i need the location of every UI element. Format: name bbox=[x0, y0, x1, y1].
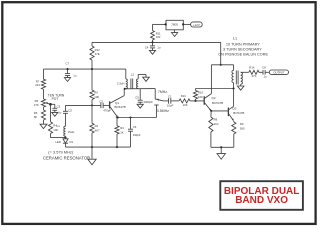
pin dot 7805 output bbox=[182, 23, 184, 25]
svg-text:1u: 1u bbox=[73, 74, 77, 78]
svg-text:1u: 1u bbox=[58, 110, 62, 114]
wire R6 to node bbox=[91, 100, 93, 106]
svg-text:100: 100 bbox=[156, 35, 161, 39]
inductor L1 secondary bbox=[241, 72, 243, 84]
svg-text:C1: C1 bbox=[168, 94, 172, 98]
node bottom R3 bbox=[116, 146, 118, 148]
svg-text:470pF: 470pF bbox=[103, 108, 111, 112]
transformer core bbox=[131, 79, 133, 89]
wire R6 top bbox=[91, 69, 93, 90]
svg-text:R2: R2 bbox=[95, 124, 99, 128]
wire R10 top bbox=[195, 89, 197, 91]
wire C2 to Q1 bbox=[103, 104, 110, 106]
resistor R3 bbox=[115, 118, 124, 135]
label L2 bbox=[131, 73, 135, 77]
resistor R14 bbox=[249, 65, 259, 78]
svg-text:C5: C5 bbox=[135, 96, 139, 100]
node emitter ground bbox=[220, 146, 222, 148]
svg-text:C6: C6 bbox=[133, 125, 137, 129]
svg-text:C5: C5 bbox=[68, 109, 72, 113]
wire L3 top to ground bbox=[138, 74, 146, 79]
svg-text:BC547B: BC547B bbox=[212, 101, 223, 105]
wire R14 to C8 bbox=[259, 71, 263, 73]
wire rail corner bbox=[220, 42, 222, 64]
node bottom ground bbox=[91, 146, 93, 148]
svg-text:LED: LED bbox=[55, 140, 60, 144]
svg-text:C8: C8 bbox=[262, 65, 266, 69]
wire wiper to C3 bbox=[51, 104, 55, 108]
wire R3 bottom bbox=[116, 134, 118, 147]
resistor R13 bbox=[179, 94, 190, 107]
wire R8 bottom bbox=[210, 132, 212, 147]
wire switch upper bbox=[155, 89, 157, 100]
resistor R9 bbox=[232, 121, 245, 134]
ground C5 bbox=[137, 102, 143, 108]
wire C8 to output bbox=[265, 71, 269, 73]
svg-text:C4: C4 bbox=[145, 46, 149, 50]
svg-text:BAND VXO: BAND VXO bbox=[235, 195, 288, 206]
ground L3 bbox=[143, 77, 150, 81]
ground 7805 bbox=[172, 30, 178, 37]
wire switch to C1 bbox=[163, 100, 168, 102]
wire collector bus bbox=[196, 88, 234, 90]
wire column top bbox=[65, 105, 67, 111]
svg-text:7MHz: 7MHz bbox=[158, 90, 167, 94]
wire Q2 emitter bus bbox=[211, 110, 228, 112]
wire LED bottom bbox=[65, 143, 67, 147]
label 3.5MHz bbox=[157, 109, 169, 113]
svg-text:3 TURN SECONDARY: 3 TURN SECONDARY bbox=[223, 47, 262, 51]
svg-text:L1: L1 bbox=[57, 124, 61, 128]
capacitor C6 bbox=[128, 118, 141, 138]
wire R4 bottom bbox=[51, 134, 66, 138]
ground left chain bbox=[40, 124, 47, 128]
svg-text:BC547B: BC547B bbox=[233, 111, 244, 115]
wire 7805 input bbox=[153, 24, 166, 30]
wire base bus bbox=[66, 104, 101, 106]
svg-text:R8: R8 bbox=[214, 117, 218, 121]
wire secondary to R14 bbox=[241, 71, 249, 73]
capacitor C2 bbox=[99, 99, 111, 112]
ground C4 bbox=[149, 48, 155, 54]
resistor R12 bbox=[90, 42, 100, 60]
inductor L1 primary bbox=[232, 70, 234, 82]
wire bottom bus bbox=[66, 146, 131, 148]
transformer L1 core bbox=[236, 71, 238, 85]
svg-text:R14: R14 bbox=[249, 65, 255, 69]
resistor R6a bbox=[34, 110, 46, 120]
wire R9 bottom bbox=[233, 134, 235, 147]
resistor R4 bbox=[48, 122, 58, 134]
node lower rail R12 bbox=[91, 68, 93, 70]
diode D1 LED bbox=[55, 136, 73, 144]
pot wiper bbox=[46, 102, 51, 104]
svg-text:L2: L2 bbox=[131, 73, 135, 77]
transistor Q2 bbox=[204, 94, 223, 111]
resistor R7 bbox=[35, 79, 45, 89]
wire R7 to pot bbox=[43, 89, 45, 99]
node T1 primary bottom bbox=[124, 88, 126, 90]
svg-text:5K: 5K bbox=[34, 115, 38, 119]
wire left chain top bbox=[43, 69, 45, 79]
wire Q3 collector bbox=[233, 89, 235, 107]
switch S1 lever bbox=[157, 99, 164, 101]
svg-text:R13: R13 bbox=[181, 94, 187, 98]
node OUTPUT bbox=[269, 70, 288, 75]
capacitor C3 bbox=[52, 105, 61, 115]
pin dot 7805 input bbox=[165, 23, 167, 25]
svg-text:47E: 47E bbox=[95, 52, 100, 56]
svg-text:POT: POT bbox=[52, 97, 59, 101]
switch lower contact bbox=[154, 105, 159, 118]
svg-text:7805: 7805 bbox=[171, 23, 178, 27]
wire L1 primary bottom bbox=[233, 83, 235, 89]
wire R12 bottom bbox=[91, 60, 93, 69]
node emitter C6 bbox=[129, 116, 131, 118]
svg-text:3.5MHz: 3.5MHz bbox=[157, 109, 169, 113]
title text bbox=[224, 186, 300, 206]
ground L1 bbox=[237, 86, 244, 90]
resistor R2 bbox=[90, 123, 100, 133]
wire rail corner down bbox=[125, 69, 127, 79]
svg-text:10 TURN PRIMARY: 10 TURN PRIMARY bbox=[226, 43, 261, 47]
wire left chain bottom bbox=[43, 120, 45, 124]
ground C3 bbox=[52, 110, 58, 116]
capacitor C8 bbox=[262, 65, 267, 78]
node LED top bbox=[64, 137, 66, 139]
label 7MHz bbox=[158, 90, 167, 94]
svg-text:.1u: .1u bbox=[157, 46, 161, 50]
svg-text:BC547B: BC547B bbox=[115, 105, 126, 109]
svg-text:3300pF: 3300pF bbox=[143, 100, 153, 104]
capacitor C4 bbox=[145, 42, 161, 49]
capacitor C7 bbox=[65, 62, 77, 78]
node +12V bbox=[191, 22, 203, 27]
svg-text:15uH: 15uH bbox=[68, 130, 75, 134]
svg-text:330pF: 330pF bbox=[133, 133, 141, 137]
svg-text:ON PIGNOSE BALUN CORE: ON PIGNOSE BALUN CORE bbox=[218, 53, 268, 57]
svg-text:47K: 47K bbox=[34, 103, 39, 107]
label resonator note bbox=[43, 149, 90, 160]
svg-text:Q2: Q2 bbox=[212, 96, 216, 100]
resistor R10 bbox=[193, 90, 203, 101]
resistor R8 bbox=[209, 111, 219, 132]
node wiper bbox=[49, 103, 52, 106]
wire node to R2 bbox=[91, 105, 93, 123]
svg-text:+12V: +12V bbox=[193, 23, 200, 27]
inductor L4 15uH bbox=[57, 124, 75, 136]
node base bus bbox=[91, 104, 93, 106]
wire R2 bottom bbox=[91, 133, 93, 147]
node rail C4 bbox=[151, 41, 153, 43]
svg-text:1K2: 1K2 bbox=[214, 122, 219, 126]
node collector top bbox=[220, 64, 222, 66]
wire C1 to R13 bbox=[171, 100, 179, 102]
svg-text:10pF: 10pF bbox=[167, 104, 174, 108]
ground C7 bbox=[64, 76, 70, 82]
svg-text:CERAMIC RESONATOR: CERAMIC RESONATOR bbox=[43, 156, 90, 161]
wire R13 to node bbox=[190, 100, 204, 102]
capacitor C5a bbox=[63, 109, 72, 114]
svg-text:(= 3.579 MHz): (= 3.579 MHz) bbox=[48, 149, 73, 154]
wire wiper to R4 bbox=[50, 104, 52, 122]
svg-text:L1: L1 bbox=[233, 36, 237, 40]
potentiometer R5 bbox=[34, 99, 46, 107]
wire feedback bus bbox=[125, 88, 155, 90]
wire Q1 emitter bus bbox=[116, 117, 157, 119]
wire R11 to rail bbox=[152, 40, 154, 42]
svg-text:470: 470 bbox=[252, 74, 257, 78]
svg-text:3.3uH: 3.3uH bbox=[117, 81, 124, 85]
svg-text:243: 243 bbox=[35, 83, 40, 87]
wire top branch bbox=[211, 65, 233, 71]
node emitter R3 bbox=[117, 116, 119, 118]
transistor Q3 bbox=[228, 106, 244, 121]
wire cap to coil bbox=[65, 113, 67, 126]
regulator U1 7805 bbox=[166, 20, 183, 30]
svg-text:10K: 10K bbox=[198, 95, 203, 99]
node Q2 base bbox=[194, 100, 196, 102]
capacitor C1 bbox=[167, 94, 174, 107]
svg-text:OUTPUT: OUTPUT bbox=[273, 71, 284, 75]
inductor L2 primary bbox=[117, 79, 127, 89]
wire lower rail bbox=[44, 68, 126, 70]
resistor R11 bbox=[151, 31, 161, 41]
svg-text:10K: 10K bbox=[53, 128, 58, 132]
svg-text:4K7: 4K7 bbox=[95, 129, 100, 133]
resistor R6 bbox=[90, 90, 100, 100]
node Q2 emitter bbox=[210, 110, 212, 112]
svg-text:560: 560 bbox=[240, 127, 245, 131]
svg-text:C7: C7 bbox=[66, 62, 70, 66]
ground emitters bbox=[217, 147, 225, 159]
svg-text:1K: 1K bbox=[120, 130, 124, 134]
wire emitter ground bus bbox=[211, 146, 234, 148]
svg-text:.1u: .1u bbox=[263, 75, 267, 79]
label ten turn pot bbox=[48, 94, 65, 101]
svg-text:C2: C2 bbox=[99, 99, 103, 103]
svg-text:R6: R6 bbox=[94, 90, 98, 94]
svg-text:R10: R10 bbox=[198, 91, 204, 95]
wire 7805 output bbox=[183, 23, 190, 25]
wire Q2 collector bbox=[210, 65, 212, 94]
ground bottom bbox=[88, 147, 96, 165]
wire pot to R6 bbox=[43, 107, 45, 110]
node lower rail C7 bbox=[66, 68, 68, 70]
label L1 note bbox=[218, 36, 268, 56]
wire L1 secondary bottom bbox=[240, 84, 242, 86]
svg-text:10K: 10K bbox=[183, 103, 188, 107]
svg-text:C3: C3 bbox=[57, 105, 61, 109]
transistor Q1 bbox=[110, 96, 126, 118]
wire Q1 collector bbox=[123, 89, 125, 96]
title box bbox=[220, 181, 303, 210]
svg-text:D1: D1 bbox=[70, 140, 74, 144]
wire supply rail bbox=[92, 41, 221, 43]
node L1 collector bbox=[233, 87, 235, 89]
capacitor C5 bbox=[135, 89, 153, 104]
svg-text:R9: R9 bbox=[240, 122, 244, 126]
inductor L3 secondary bbox=[136, 79, 138, 89]
wire C6 bottom bbox=[130, 131, 132, 147]
